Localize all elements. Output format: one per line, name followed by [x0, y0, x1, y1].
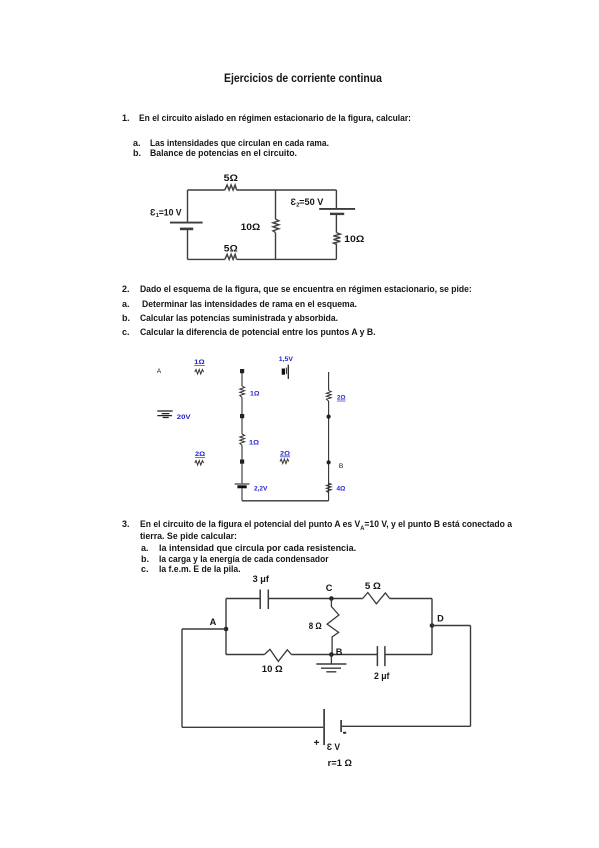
item 2b	[122, 314, 130, 323]
label R top-left blue	[194, 359, 205, 366]
battery E short plate circuit3	[340, 720, 342, 732]
label 2uf	[374, 671, 389, 681]
wire right branch circuit2	[328, 372, 330, 501]
svg-text:2Ω: 2Ω	[195, 451, 205, 458]
wire middle branch circuit2	[241, 371, 243, 501]
battery E2 short plate	[330, 213, 344, 215]
svg-text:Ɛ V: Ɛ V	[327, 742, 341, 752]
battery top middle long plate	[287, 365, 289, 379]
label 3uf	[253, 574, 269, 584]
problem 3 statement line 2	[140, 532, 237, 541]
capacitor 3uf plates	[260, 590, 268, 610]
node dot right B	[327, 460, 331, 464]
label R mid-left blue	[195, 451, 205, 458]
node B label circuit3	[336, 647, 343, 657]
svg-text:5Ω: 5Ω	[224, 172, 239, 183]
svg-text:3 μf: 3 μf	[253, 574, 269, 584]
resistor top-left zigzag	[195, 370, 204, 375]
resistor 5ohm bottom zigzag	[225, 254, 237, 259]
label 5ohm circuit3	[365, 581, 381, 591]
svg-text:8 Ω: 8 Ω	[309, 621, 322, 631]
svg-text:5Ω: 5Ω	[224, 243, 239, 254]
ground stub	[330, 655, 332, 665]
problem 1 statement	[139, 114, 411, 123]
wire bottom circuit2	[242, 500, 329, 502]
svg-text:2,2V: 2,2V	[254, 485, 268, 492]
label E2=50V	[291, 197, 324, 209]
svg-text:10Ω: 10Ω	[241, 221, 261, 232]
label 1ohm upper middle blue	[250, 390, 260, 397]
problem 2 statement	[140, 285, 472, 294]
item 1a	[133, 139, 141, 148]
wire top circuit1	[188, 189, 337, 191]
label 8ohm	[309, 621, 322, 631]
svg-text:1,5V: 1,5V	[279, 356, 294, 363]
wire left branch circuit1	[187, 190, 189, 259]
battery left 20V bars	[157, 411, 172, 418]
svg-text:B: B	[336, 647, 343, 657]
battery 2.2V thick plate	[237, 485, 246, 488]
svg-text:C: C	[326, 583, 333, 593]
label 2ohm right blue	[337, 395, 346, 402]
svg-text:1Ω: 1Ω	[194, 359, 205, 366]
label r=1ohm	[328, 758, 352, 768]
label 1ohm lower middle blue	[249, 440, 259, 447]
resistor mid-left zigzag	[195, 461, 204, 466]
svg-text:20V: 20V	[177, 414, 192, 421]
wire bottom inner circuit3	[226, 654, 432, 656]
resistor 1ohm upper middle zigzag	[240, 386, 245, 397]
node C label	[326, 583, 333, 593]
wire right inner circuit3	[431, 599, 433, 655]
svg-text:A: A	[157, 368, 162, 375]
battery E1 long plate	[170, 222, 203, 224]
item 3c	[141, 565, 149, 574]
node dot middle low	[240, 460, 244, 464]
node B label	[339, 463, 344, 470]
label 5ohm bottom	[224, 243, 239, 254]
battery minus sign	[343, 732, 346, 734]
resistor 10ohm circuit3 zigzag	[264, 649, 291, 661]
label 1.5V blue	[279, 356, 294, 363]
wire outer right vertical	[470, 626, 472, 727]
item 3b	[141, 555, 149, 564]
node A label	[157, 368, 162, 375]
resistor 8ohm zigzag	[327, 599, 339, 655]
wire outer left vertical	[181, 629, 183, 727]
label 10ohm middle	[241, 221, 261, 232]
resistor 5ohm circuit3 zigzag	[363, 593, 390, 604]
resistor 10ohm middle zigzag	[273, 219, 279, 233]
title	[224, 74, 382, 86]
wire top circuit3	[226, 598, 432, 600]
svg-text:1Ω: 1Ω	[249, 440, 259, 447]
svg-text:2 μf: 2 μf	[374, 671, 389, 681]
battery plus sign	[314, 740, 319, 745]
wire right branch circuit1	[335, 190, 337, 259]
item 2a	[122, 300, 130, 309]
resistor 2ohm right zigzag	[326, 390, 331, 401]
problem 3 number	[122, 520, 130, 529]
label 5ohm top	[224, 172, 239, 183]
label 10ohm right	[344, 233, 365, 244]
node A label	[210, 617, 217, 627]
battery top middle thin plate	[285, 368, 287, 374]
svg-text:5 Ω: 5 Ω	[365, 581, 381, 591]
label E V	[327, 742, 341, 752]
svg-text:B: B	[339, 463, 344, 470]
svg-text:=10 V: =10 V	[159, 208, 182, 218]
svg-text:4Ω: 4Ω	[337, 486, 346, 493]
label 2.2V blue	[254, 485, 268, 492]
node D dot	[430, 623, 435, 628]
wire A to outer left	[182, 628, 226, 630]
node dot middle top	[240, 369, 244, 373]
battery top middle thick plate	[282, 369, 285, 375]
node A dot	[224, 627, 229, 632]
resistor 10ohm right zigzag	[333, 233, 340, 245]
item 1b	[133, 149, 141, 158]
node B dot	[329, 652, 334, 657]
resistor 5ohm top zigzag	[225, 185, 237, 190]
battery E long plate circuit3	[323, 709, 325, 745]
problem 3 statement line 1	[140, 520, 512, 532]
wire left inner circuit3	[225, 599, 227, 655]
label 10ohm circuit3	[262, 664, 283, 674]
battery E2 long plate	[319, 208, 355, 210]
svg-text:r=1 Ω: r=1 Ω	[328, 758, 352, 768]
item 3a	[141, 544, 149, 553]
resistor mid-right zigzag	[280, 459, 289, 464]
resistor 1ohm lower middle zigzag	[240, 434, 245, 445]
label 20V blue	[177, 414, 192, 421]
wire middle branch circuit1	[275, 190, 277, 259]
problem 2 number	[122, 285, 130, 294]
node dot right mid	[327, 415, 331, 419]
node dot middle mid	[240, 414, 244, 418]
svg-text:A: A	[210, 617, 217, 627]
battery 2.2V thin plate	[235, 483, 250, 485]
problem 1 number	[122, 114, 130, 123]
label E1=10V	[150, 208, 182, 220]
svg-text:2Ω: 2Ω	[280, 451, 290, 458]
svg-text:10Ω: 10Ω	[344, 233, 365, 244]
battery E1 short plate	[180, 228, 193, 231]
ground symbol	[316, 664, 346, 672]
svg-text:=50 V: =50 V	[299, 197, 323, 207]
label R mid-right blue	[280, 451, 290, 458]
wire outer bottom left	[182, 726, 323, 728]
svg-text:2Ω: 2Ω	[337, 395, 346, 402]
label 4ohm right blue	[337, 486, 346, 493]
capacitor 2uf plates	[377, 646, 385, 666]
node C dot	[329, 596, 334, 601]
wire outer bottom right	[342, 725, 471, 727]
svg-text:D: D	[437, 613, 444, 623]
item 2c	[122, 328, 130, 337]
resistor 4ohm right zigzag	[326, 483, 331, 493]
wire D to outer right	[432, 625, 471, 627]
svg-text:1Ω: 1Ω	[250, 390, 260, 397]
svg-text:10 Ω: 10 Ω	[262, 664, 283, 674]
node D label	[437, 613, 444, 623]
wire bottom circuit1	[188, 258, 337, 260]
